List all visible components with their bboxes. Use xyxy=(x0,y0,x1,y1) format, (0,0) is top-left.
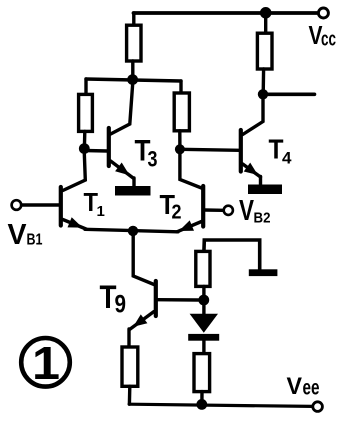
terminal VB1 xyxy=(12,200,22,210)
transistor T1 xyxy=(21,153,86,229)
resistor R1 xyxy=(127,25,141,61)
transistor T4 xyxy=(181,99,263,185)
wire R4 bottom stub xyxy=(178,131,181,149)
label VB1 xyxy=(8,219,43,251)
wire R1 bottom stub xyxy=(131,61,134,80)
ground T3 xyxy=(115,186,151,196)
label T2 xyxy=(160,189,182,224)
wire R2 bottom stub xyxy=(262,69,266,94)
svg-text:B1: B1 xyxy=(27,232,43,249)
svg-text:V: V xyxy=(8,219,28,251)
resistor R2 xyxy=(257,33,272,69)
resistor R7 xyxy=(122,347,138,386)
node top-R2 junction xyxy=(260,7,272,19)
wire crossbar xyxy=(86,79,181,81)
node F junction xyxy=(196,399,207,410)
terminal VEE xyxy=(313,402,323,412)
svg-text:V: V xyxy=(287,373,303,400)
label T3 xyxy=(135,135,158,172)
resistor R6 xyxy=(194,354,210,392)
wire R1 top stub xyxy=(132,13,135,26)
label T4 xyxy=(269,134,293,168)
svg-text:V: V xyxy=(239,195,255,227)
resistor R5 xyxy=(196,251,210,286)
diode D1 xyxy=(188,300,219,355)
node D junction xyxy=(175,144,185,154)
svg-text:4: 4 xyxy=(282,149,292,168)
svg-text:ee: ee xyxy=(303,377,320,400)
wire top rail xyxy=(134,11,318,15)
node E junction xyxy=(198,295,209,306)
node C junction xyxy=(79,143,90,154)
wire R7 bottom stub xyxy=(128,386,132,404)
wire R3 top stub xyxy=(84,79,87,95)
terminal Vcc xyxy=(318,8,328,18)
ground bias xyxy=(249,269,278,276)
wire R5 bottom stub xyxy=(202,286,205,300)
svg-text:1: 1 xyxy=(97,203,105,220)
wire R2 top stub xyxy=(264,13,267,34)
transistor T9 xyxy=(129,234,199,348)
wire emitter tail xyxy=(85,229,178,232)
wire R3 bottom stub xyxy=(83,131,87,148)
svg-text:B2: B2 xyxy=(254,211,271,227)
node B junction xyxy=(258,89,268,99)
wire bias top xyxy=(204,240,260,270)
node A junction xyxy=(127,74,138,85)
node tail junction xyxy=(128,226,138,236)
label T1 xyxy=(84,187,105,220)
label VEE xyxy=(287,373,320,400)
label VB2 xyxy=(239,195,271,227)
transistor T3 xyxy=(85,85,135,187)
wire bottom rail xyxy=(129,404,312,406)
label T9 xyxy=(100,279,127,319)
resistor R4 xyxy=(174,93,189,131)
resistor R3 xyxy=(79,94,93,131)
label Vcc xyxy=(309,20,337,51)
wire R4 top stub xyxy=(179,81,182,94)
wire R6 bottom stub xyxy=(200,392,204,405)
wire output stub xyxy=(263,93,315,97)
svg-text:cc: cc xyxy=(321,29,336,51)
svg-text:1: 1 xyxy=(32,337,60,389)
svg-text:9: 9 xyxy=(115,291,127,319)
transistor T2 xyxy=(177,154,223,232)
figure number 1 xyxy=(21,337,70,389)
ground T4 xyxy=(248,185,282,195)
terminal VB2 xyxy=(224,206,233,215)
svg-text:3: 3 xyxy=(148,147,158,172)
svg-text:2: 2 xyxy=(172,202,182,224)
